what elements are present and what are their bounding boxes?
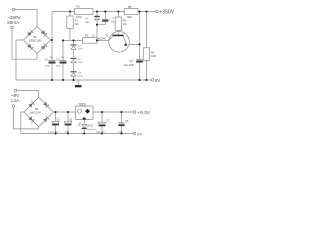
wire AC2 to bridge left (12, 29, 37, 59)
svg-text:100V: 100V (78, 49, 83, 51)
svg-text:22µ: 22µ (61, 57, 65, 59)
junction rail output column (138, 10, 140, 12)
junction emitter output (138, 43, 140, 45)
junction gnd2 C7 (101, 132, 103, 134)
svg-text:BC546: BC546 (98, 37, 106, 41)
svg-text:10k: 10k (75, 23, 80, 26)
svg-text:22µ 400V: 22µ 400V (124, 65, 134, 67)
svg-text:R3: R3 (85, 34, 89, 38)
resistor R2 horizontal (75, 9, 94, 15)
svg-text:R5: R5 (128, 5, 132, 9)
terminal AC1 top (12, 8, 15, 11)
wire bridge plus stub (51, 39, 53, 41)
terminal +350V (156, 10, 159, 13)
junction D4 C3 (96, 24, 98, 26)
capacitor C6 (67, 112, 69, 121)
wire plus column (51, 12, 53, 61)
svg-text:C2: C2 (56, 58, 60, 62)
diode B1 top-right (41, 30, 46, 35)
regulator IC1 box (76, 106, 94, 120)
svg-text:400V: 400V (56, 66, 61, 68)
svg-text:R1: R1 (75, 18, 79, 22)
wire 0V rail (16, 79, 151, 81)
junction out rail C7 (101, 111, 103, 113)
wire bridge2 minus path (21, 112, 24, 134)
svg-text:D3: D3 (78, 72, 82, 74)
resistor R6 vertical (146, 12, 148, 48)
junction 0V C4 (138, 79, 140, 81)
resistor R3 horizontal (83, 38, 98, 44)
wire reg out rail (93, 111, 133, 113)
svg-text:2200µ 40V: 2200µ 40V (48, 131, 59, 133)
wire bridge2 plus rail (53, 111, 75, 113)
terminal AC3 (14, 89, 17, 92)
svg-text:100V: 100V (78, 62, 83, 64)
svg-text:350V: 350V (111, 22, 116, 24)
zener D4 (96, 12, 98, 17)
junction out rail C8 (120, 111, 122, 113)
diode B1 cathode bars (30, 30, 47, 50)
junction 0V R6 (145, 79, 147, 81)
junction 0V C1 (51, 79, 53, 81)
svg-text:D1: D1 (78, 46, 82, 48)
resistor R4 vertical (115, 17, 121, 31)
junction rail R1 top (69, 10, 71, 12)
diode B2 cathode bars (31, 101, 49, 122)
junction node N1 zener stack (72, 39, 74, 41)
svg-text:R2: R2 (77, 4, 81, 8)
svg-text:7806: 7806 (79, 102, 86, 106)
terminal 0V top (151, 79, 154, 82)
wire AC1 to bridge top (15, 10, 37, 27)
junction node N1 C2 (62, 39, 64, 41)
resistor R1 vertical (67, 16, 73, 29)
wire bridge minus path (16, 40, 24, 80)
svg-text:C7: C7 (106, 120, 110, 123)
svg-text:D2: D2 (78, 59, 82, 61)
svg-text:150V: 150V (85, 22, 91, 24)
terminal +6.3V (133, 111, 136, 114)
svg-text:80mA: 80mA (7, 20, 20, 25)
junction rail R6 top (145, 10, 147, 12)
wire rail mid (93, 11, 125, 13)
svg-text:R4: R4 (123, 18, 127, 22)
svg-text:+350V: +350V (159, 10, 174, 16)
junction gnd2 C8 (120, 132, 122, 134)
svg-text:10k: 10k (123, 23, 128, 26)
svg-text:B1: B1 (34, 36, 38, 39)
bridge B2 diamond (24, 97, 53, 126)
capacitor C3 (104, 12, 106, 20)
wire bottom 0V rail (21, 133, 133, 135)
junction gnd2 C5 (54, 132, 56, 134)
svg-text:B2: B2 (35, 108, 39, 111)
resistor R5 horizontal (125, 9, 139, 15)
capacitor C8 (121, 112, 123, 122)
wire emitter (129, 43, 140, 45)
terminal AC2 (11, 26, 14, 29)
zener D3 (70, 71, 76, 73)
LED D5 (82, 124, 87, 127)
junction gnd2 LED (83, 132, 85, 134)
svg-text:470Ω: 470Ω (76, 16, 82, 19)
svg-text:0V: 0V (137, 132, 142, 136)
capacitor C2 (62, 40, 64, 60)
diode B2 top-right (43, 102, 48, 107)
svg-text:LED1: LED1 (87, 125, 94, 128)
terminal AC4 (12, 105, 15, 108)
diode B1 top-left (27, 32, 32, 37)
svg-text:B40C3700: B40C3700 (30, 113, 42, 115)
svg-text:100k: 100k (127, 16, 133, 19)
svg-text:C1: C1 (45, 58, 49, 62)
svg-text:R6: R6 (151, 50, 155, 54)
wire AC3 to bridge2 top (17, 91, 39, 98)
svg-text:C5: C5 (57, 119, 61, 122)
junction bridge1 plus (51, 39, 53, 41)
svg-text:100n: 100n (65, 131, 71, 133)
wire rail out (138, 11, 156, 13)
junction rail C3 top (104, 10, 106, 12)
svg-text:C4: C4 (130, 59, 134, 63)
zener D1 (73, 40, 75, 44)
capacitor C4 (136, 59, 143, 61)
svg-text:D4: D4 (86, 18, 90, 20)
diode B2 bottom-right (43, 118, 48, 123)
junction rail R4 top (117, 10, 119, 12)
wire node N1 (63, 39, 83, 41)
diode B2 bottom-left (28, 116, 33, 121)
junction rail D4 top (96, 10, 98, 12)
svg-text:100n: 100n (118, 132, 124, 134)
capacitor C1 (49, 60, 56, 62)
svg-text:400V: 400V (45, 66, 50, 68)
diode B1 bottom-left (27, 44, 32, 49)
diode B2 top-left (28, 103, 33, 108)
wire output column A (139, 12, 141, 60)
terminal 0V bottom (133, 132, 136, 135)
transistor T1 (109, 32, 130, 53)
junction gnd2 C6 (67, 132, 69, 134)
svg-text:100V: 100V (78, 75, 83, 77)
svg-text:red 3mm: red 3mm (87, 128, 96, 131)
capacitor C7 (101, 112, 103, 122)
bridge B1 diamond (24, 27, 51, 54)
junction rail2 C6 (67, 111, 69, 113)
svg-text:C6: C6 (69, 119, 73, 122)
svg-text:~280V: ~280V (7, 15, 21, 20)
svg-text:C8: C8 (125, 120, 129, 123)
svg-text:1.5A: 1.5A (11, 98, 20, 103)
junction 0V zener stack (72, 79, 74, 81)
svg-text:100µ 40V: 100µ 40V (96, 132, 106, 134)
junction 0V C2 (62, 79, 64, 81)
capacitor C5 (55, 112, 57, 121)
wire AC4 to bridge2 left (14, 107, 39, 129)
svg-text:+6.3V: +6.3V (137, 110, 150, 116)
junction rail2 C5 (54, 111, 56, 113)
svg-text:C3: C3 (111, 18, 115, 20)
svg-text:T1: T1 (106, 34, 110, 38)
wire R3 to base (97, 39, 108, 41)
svg-text:100k: 100k (151, 55, 157, 58)
svg-text:22µ: 22µ (50, 57, 54, 59)
ground symbol top (77, 80, 79, 85)
junction node base wire (96, 39, 98, 41)
svg-text:1k: 1k (92, 35, 95, 38)
zener D2 (70, 57, 76, 59)
wire top rail raw (52, 11, 75, 13)
svg-text:0V: 0V (155, 78, 160, 83)
diode B1 bottom-right (41, 45, 46, 50)
svg-text:B250C1500: B250C1500 (29, 41, 42, 43)
